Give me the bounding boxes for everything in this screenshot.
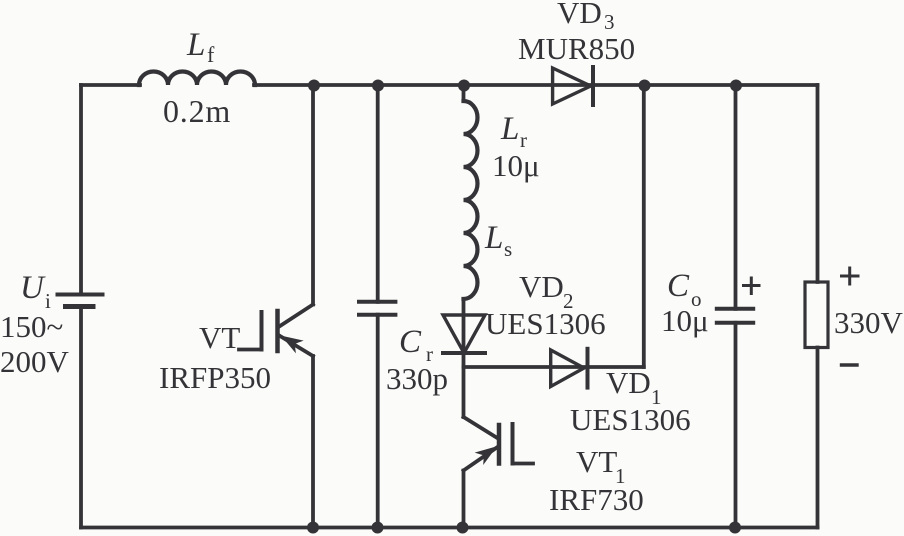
svg-text:VT: VT xyxy=(199,320,240,355)
node dot top VD1 xyxy=(639,80,651,92)
wire bottom rail xyxy=(81,526,818,530)
diode VD3 triangle xyxy=(553,68,591,104)
wire top rail right xyxy=(254,83,818,87)
transistor VT gate lead xyxy=(239,348,262,352)
wire Cr cap vertical lower xyxy=(376,315,380,528)
diode VD1 triangle xyxy=(551,350,584,387)
node dot top Co xyxy=(730,80,742,92)
svg-text:10μ: 10μ xyxy=(492,148,540,183)
resistor load rect xyxy=(805,282,828,348)
wire VD1 riser xyxy=(642,85,646,367)
transistor VT source slant xyxy=(280,336,313,356)
transistor VT channel bar xyxy=(275,311,280,351)
svg-text:MUR850: MUR850 xyxy=(518,31,635,66)
svg-text:IRFP350: IRFP350 xyxy=(159,360,271,395)
wire Cr cap vertical upper xyxy=(376,85,380,302)
wire Co vertical lower xyxy=(734,323,738,528)
svg-text:L: L xyxy=(500,111,519,147)
inductor Lr Ls coil xyxy=(464,101,478,299)
svg-text:150~: 150~ xyxy=(0,309,63,344)
svg-text:VT: VT xyxy=(576,444,617,479)
wire right vertical upper xyxy=(816,85,820,282)
wire VT drain vertical xyxy=(311,85,315,305)
node dot bottom Co xyxy=(729,522,741,534)
wire left vertical upper xyxy=(79,85,83,295)
svg-text:330p: 330p xyxy=(386,361,448,396)
svg-text:0.2m: 0.2m xyxy=(163,93,231,129)
node dot bottom VT xyxy=(307,522,319,534)
svg-text:IRF730: IRF730 xyxy=(549,482,644,517)
plus sign at Co xyxy=(744,278,760,294)
wire VT1 source vertical xyxy=(462,471,466,528)
wire VT source vertical xyxy=(311,356,315,528)
svg-text:10μ: 10μ xyxy=(661,303,709,338)
capacitor Co lower plate xyxy=(717,321,753,325)
node dot bottom VT1 xyxy=(457,522,469,534)
svg-text:L: L xyxy=(186,27,205,63)
diode VD1 cathode bar xyxy=(586,349,590,388)
svg-text:200V: 200V xyxy=(0,344,70,379)
node dot top Cr xyxy=(372,80,384,92)
wire VD2 to VT1 xyxy=(462,353,466,417)
svg-text:f: f xyxy=(207,42,215,67)
battery Ui long plate xyxy=(58,293,103,297)
transistor VT1 source slant xyxy=(464,447,498,471)
node dot top VT xyxy=(308,80,320,92)
transistor VT drain slant xyxy=(279,305,314,328)
svg-text:VD: VD xyxy=(557,0,602,30)
capacitor upper plate xyxy=(359,300,395,304)
transistor VT1 gate bar xyxy=(511,424,515,464)
transistor VT gate bar xyxy=(260,312,264,350)
svg-text:s: s xyxy=(504,237,512,261)
wire VD1 horizontal xyxy=(464,365,644,369)
wire right vertical lower xyxy=(816,348,820,528)
wire top rail left xyxy=(81,83,140,87)
svg-text:UES1306: UES1306 xyxy=(570,402,691,437)
svg-text:UES1306: UES1306 xyxy=(485,306,606,341)
diode VD2 cathode bar xyxy=(443,351,485,355)
wire Lr top lead xyxy=(462,85,466,101)
svg-text:U: U xyxy=(20,270,46,306)
capacitor Co upper plate xyxy=(717,307,753,311)
node dot top Lr xyxy=(458,80,470,92)
svg-text:330V: 330V xyxy=(834,305,904,340)
wire Co vertical upper xyxy=(734,85,738,309)
inductor Lf coil xyxy=(139,72,255,86)
capacitor lower plate xyxy=(359,313,395,317)
svg-text:C: C xyxy=(667,268,690,304)
transistor VT1 drain slant xyxy=(464,417,497,438)
minus sign at load xyxy=(842,363,858,366)
transistor VT arrow xyxy=(281,336,304,354)
wire left vertical lower xyxy=(79,307,83,528)
svg-text:VD: VD xyxy=(606,365,651,400)
svg-text:C: C xyxy=(399,324,422,360)
wire Ls to VD2 xyxy=(462,299,466,353)
svg-text:L: L xyxy=(484,220,503,256)
svg-text:VD: VD xyxy=(519,269,564,304)
node dot bottom Cr xyxy=(372,522,384,534)
plus sign at load xyxy=(842,268,859,284)
transistor VT1 arrow xyxy=(475,446,497,465)
diode VD2 triangle xyxy=(443,315,485,353)
diode VD3 cathode bar xyxy=(591,67,595,105)
transistor VT1 channel bar xyxy=(497,425,502,464)
battery Ui short plate xyxy=(66,304,94,309)
transistor VT1 gate lead xyxy=(513,462,534,466)
